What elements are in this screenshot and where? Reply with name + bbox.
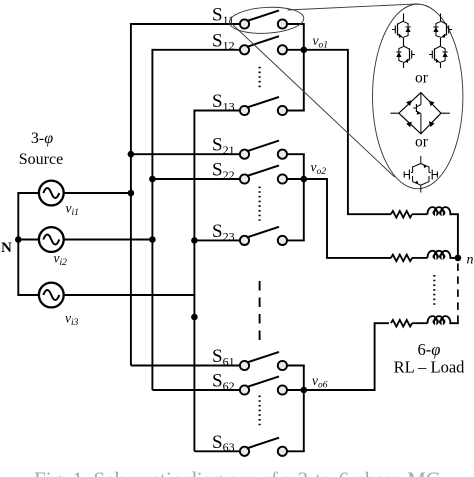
svg-text:Fig. 1. Schematic diagram of: Fig. 1. Schematic diagram of a 3-to-6 ph… — [34, 468, 440, 477]
resistor R3 — [391, 320, 412, 327]
AC source v_i1 — [39, 181, 64, 206]
svg-text:n: n — [467, 253, 474, 268]
switch S62 left contact — [240, 385, 249, 394]
callout tangent line top — [288, 4, 420, 10]
wire v_o6 to RL branch 3 — [304, 323, 389, 390]
switch S62 lever — [247, 376, 279, 387]
inductor L3 — [428, 316, 452, 323]
AC source v_i2 — [39, 227, 64, 252]
svg-text:S11: S11 — [212, 5, 234, 27]
svg-text:S61: S61 — [212, 346, 235, 368]
dotted ellipsis omitted RL branches — [433, 275, 435, 306]
dashed wire node n to branch 3 — [457, 263, 459, 324]
switch S13 left contact — [240, 106, 249, 115]
wire source 1 left stub — [17, 192, 39, 194]
wire switch S13 output — [287, 110, 305, 112]
wire R1 to L1 — [412, 213, 428, 215]
wire bus to switch S62 input — [152, 389, 240, 391]
wire source 3 to bus C — [64, 294, 195, 296]
wire input bus A (phase 1) — [130, 23, 132, 365]
inductor L1 — [428, 207, 452, 214]
wire bus to switch S23 input — [194, 239, 240, 241]
svg-text:vo6: vo6 — [312, 373, 328, 391]
wire switch S61 output — [287, 365, 305, 367]
wire switch S63 output — [287, 450, 305, 452]
wire switch S21 output — [287, 153, 305, 155]
junction bus B / source 2 — [149, 236, 156, 243]
svg-text:S62: S62 — [212, 371, 235, 393]
switch S11 lever — [247, 10, 279, 21]
switch S61 lever — [247, 352, 279, 363]
switch S61 left contact — [240, 361, 249, 370]
node v_o2 junction dot — [301, 176, 308, 183]
switch S22 left contact — [240, 174, 249, 183]
wire L3 to right rail — [450, 322, 459, 324]
wire bus to switch S22 input — [152, 178, 240, 180]
switch S62 right contact — [278, 385, 287, 394]
svg-text:vi3: vi3 — [65, 311, 79, 329]
svg-text:S13: S13 — [212, 91, 235, 113]
svg-text:vi2: vi2 — [54, 251, 68, 269]
resistor R2 — [391, 255, 412, 262]
wire right rail branch1 to node n — [457, 214, 459, 258]
diode bridge with IGBT alternative — [390, 93, 450, 134]
switch S61 right contact — [278, 361, 287, 370]
IGBT pair cell left (common emitter) — [392, 14, 415, 69]
switch S63 left contact — [240, 447, 249, 456]
switch S63 lever — [247, 438, 279, 449]
wire bus to switch S63 input — [194, 450, 240, 452]
svg-text:vi1: vi1 — [66, 201, 79, 219]
junction bus B / S22 row — [149, 176, 156, 183]
svg-text:S12: S12 — [212, 30, 235, 52]
svg-text:N: N — [1, 240, 12, 256]
IGBT pair cell right (common collector) — [429, 14, 452, 69]
wire input bus C (phase 3) — [193, 110, 195, 452]
switch S23 lever — [247, 227, 279, 238]
back-to-back MOSFET alternative — [404, 156, 437, 193]
junction bus C / S23 row — [191, 237, 198, 244]
switch S12 lever — [247, 36, 279, 47]
wire output column group 1 — [303, 24, 305, 111]
junction bus A / source 1 — [128, 190, 135, 197]
wire source 2 to bus B — [64, 239, 153, 241]
wire switch S11 output — [287, 23, 305, 25]
svg-text:6-φ: 6-φ — [418, 340, 441, 359]
switch S22 right contact — [278, 174, 287, 183]
switch S11 left contact — [240, 19, 249, 28]
wire left neutral rail — [17, 193, 19, 295]
svg-text:S21: S21 — [212, 135, 235, 157]
wire v_o1 to RL branch 1 — [304, 50, 391, 214]
wire switch S23 output — [287, 239, 305, 241]
wire R2 to L2 — [412, 257, 428, 259]
svg-text:S63: S63 — [212, 432, 235, 454]
wire source 1 to bus A — [64, 192, 131, 194]
svg-text:vo2: vo2 — [311, 160, 327, 178]
wire L1 to right rail — [450, 213, 459, 215]
switch S63 right contact — [278, 447, 287, 456]
dotted ellipsis inside group 1 — [259, 67, 261, 90]
node v_o6 junction dot — [301, 387, 308, 394]
junction bus C node — [191, 314, 198, 321]
switch S21 left contact — [240, 150, 249, 159]
svg-text:S23: S23 — [212, 221, 235, 243]
switch S22 lever — [247, 165, 279, 176]
switch S21 right contact — [278, 150, 287, 159]
wire switch S22 output — [287, 178, 305, 180]
node N junction dot — [15, 236, 22, 243]
switch S23 right contact — [278, 236, 287, 245]
callout tangent line bottom — [232, 24, 395, 178]
svg-text:or: or — [415, 134, 429, 151]
wire v_o2 to RL branch 2 — [304, 179, 391, 258]
wire R3 to L3 — [412, 322, 428, 324]
wire bus to switch S11 input — [131, 23, 240, 25]
switch S13 lever — [247, 97, 279, 108]
svg-text:or: or — [415, 69, 429, 86]
wire switch S62 output — [287, 389, 305, 391]
resistor R1 — [391, 211, 412, 218]
callout big ellipse — [373, 4, 463, 189]
switch S11 right contact — [278, 19, 287, 28]
wire switch S12 output — [287, 49, 305, 51]
switch S12 left contact — [240, 45, 249, 54]
wire source 2 left stub — [17, 239, 39, 241]
wire bus to switch S12 input — [152, 49, 240, 51]
wire source 3 left stub — [17, 294, 39, 296]
junction bus A / S21 row — [128, 151, 135, 158]
callout small ellipse around S11 — [229, 5, 305, 35]
wire input bus B (phase 2) — [151, 49, 153, 390]
dotted ellipsis inside group 2 — [259, 187, 261, 221]
node n junction dot — [455, 255, 462, 262]
svg-text:Source: Source — [19, 151, 63, 168]
wire output column group 6 — [303, 366, 305, 452]
switch S12 right contact — [278, 45, 287, 54]
switch S23 left contact — [240, 236, 249, 245]
AC source v_i3 — [39, 283, 64, 308]
wire L2 to right rail — [450, 257, 459, 259]
svg-text:vo1: vo1 — [313, 33, 329, 51]
svg-text:RL – Load: RL – Load — [394, 358, 466, 377]
switch S13 right contact — [278, 106, 287, 115]
dotted ellipsis inside group 6 — [259, 396, 261, 429]
wire output column group 2 — [303, 154, 305, 240]
dashed ellipsis omitted groups 3-5 — [259, 281, 261, 343]
svg-text:3-φ: 3-φ — [31, 130, 53, 147]
wire bus to switch S13 input — [194, 110, 240, 112]
svg-text:S22: S22 — [212, 160, 235, 182]
inductor L2 — [428, 251, 452, 258]
wire bus to switch S61 input — [131, 365, 240, 367]
wire bus to switch S21 input — [131, 153, 240, 155]
switch S21 lever — [247, 141, 279, 152]
node v_o1 junction dot — [301, 47, 308, 54]
